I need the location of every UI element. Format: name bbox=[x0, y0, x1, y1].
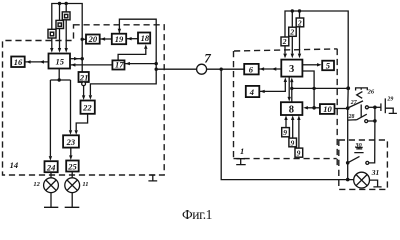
node bbox=[220, 68, 223, 71]
node bbox=[298, 9, 301, 12]
wire 3 to 6 bbox=[259, 68, 282, 70]
contact 28 arm bbox=[357, 114, 367, 120]
wire 4 to 3 bbox=[259, 82, 285, 92]
ground of lamp 12 bbox=[44, 193, 58, 208]
sensor box (top-left, upper) bbox=[62, 12, 70, 20]
sensor box (top-left, middle) bbox=[56, 20, 64, 28]
wire down to lamp line bbox=[221, 69, 353, 179]
node bbox=[346, 161, 350, 165]
sensor box 9 (middle) bbox=[289, 138, 297, 147]
svg-text:26: 26 bbox=[367, 88, 375, 95]
node bbox=[155, 68, 158, 71]
wire 3 to 8 bbox=[288, 77, 290, 98]
svg-text:9: 9 bbox=[297, 149, 301, 158]
svg-text:25: 25 bbox=[67, 162, 77, 172]
wire 8 to 3 bbox=[291, 82, 293, 102]
block 24 bbox=[45, 161, 58, 172]
node on top bus bbox=[65, 2, 68, 5]
wire 15 to bus node bbox=[70, 58, 82, 60]
wire node to block 10 bbox=[314, 107, 320, 109]
svg-text:8: 8 bbox=[289, 104, 294, 115]
node bbox=[58, 78, 61, 81]
block 4 bbox=[246, 86, 259, 97]
wire T to block 24 bbox=[49, 80, 51, 156]
node bbox=[290, 87, 293, 90]
node bbox=[155, 62, 158, 65]
svg-text:23: 23 bbox=[66, 137, 76, 147]
svg-text:6: 6 bbox=[249, 64, 254, 74]
wire 28 to vertical bbox=[368, 120, 375, 122]
ground of lamp 31 bbox=[370, 180, 382, 187]
wire sensor 2 to block 3 bbox=[299, 11, 301, 54]
sensor box 2 (lower-left) bbox=[281, 37, 289, 46]
block 6 bbox=[244, 64, 259, 75]
svg-text:7: 7 bbox=[204, 51, 211, 66]
dashed box 1 (right unit outline) bbox=[234, 49, 337, 51]
wire 17 up to 18 bbox=[118, 49, 146, 61]
contact 30 fixed contact bbox=[354, 147, 363, 152]
contact 30 arm bbox=[348, 156, 360, 162]
gang link 27-28 bbox=[360, 105, 362, 118]
sensor box 2 (upper) bbox=[296, 18, 304, 27]
sensor box 2 (middle) bbox=[289, 27, 297, 36]
contact 28 wire from bus bbox=[348, 119, 357, 121]
top-right bus bbox=[285, 11, 348, 88]
node bbox=[346, 178, 350, 182]
wire sensor to block 15 bbox=[51, 38, 53, 48]
wire node to right bus bbox=[292, 87, 348, 89]
svg-text:29: 29 bbox=[386, 96, 393, 102]
wire 21 terminal to 22 bbox=[83, 86, 85, 96]
contact 27 terminal bbox=[365, 106, 368, 109]
sensor box 9 (lower-right) bbox=[295, 148, 303, 157]
wire sensor to block 15 bbox=[59, 4, 61, 49]
node bbox=[346, 86, 350, 90]
wire node into 8 bbox=[308, 107, 315, 109]
wire T to block 23 bbox=[70, 80, 72, 130]
node bbox=[81, 57, 84, 60]
svg-text:2: 2 bbox=[289, 28, 294, 37]
battery 29 bbox=[381, 98, 397, 113]
block 19 bbox=[112, 34, 126, 45]
svg-text:15: 15 bbox=[56, 57, 65, 67]
block 5 bbox=[322, 61, 334, 70]
wire 3 to 5 bbox=[302, 64, 317, 66]
dashed box of lamp unit 30/31 bbox=[339, 140, 388, 189]
wire 3 right output down bbox=[302, 71, 314, 108]
svg-text:19: 19 bbox=[115, 34, 124, 44]
svg-text:10: 10 bbox=[323, 104, 332, 114]
svg-text:18: 18 bbox=[141, 33, 150, 43]
svg-text:2: 2 bbox=[282, 37, 287, 46]
block 8 bbox=[281, 102, 303, 115]
wire 15 to 16 bbox=[25, 61, 49, 63]
block 17 bbox=[112, 60, 124, 69]
block 18 bbox=[138, 33, 150, 44]
svg-text:31: 31 bbox=[371, 168, 380, 177]
svg-text:21: 21 bbox=[79, 72, 89, 82]
svg-text:20: 20 bbox=[88, 34, 98, 44]
wire 19 to 20 bbox=[100, 38, 112, 40]
wire node to block 20 bbox=[82, 38, 86, 40]
svg-text:9: 9 bbox=[291, 138, 295, 147]
node bbox=[312, 87, 315, 90]
svg-text:27: 27 bbox=[350, 100, 358, 106]
contact 26 arm bbox=[357, 92, 363, 99]
svg-text:17: 17 bbox=[115, 60, 124, 70]
svg-text:24: 24 bbox=[46, 162, 56, 172]
node bbox=[373, 106, 377, 110]
contact 27 arm bbox=[348, 101, 363, 108]
svg-text:1: 1 bbox=[240, 146, 244, 156]
node bbox=[346, 106, 350, 110]
wire sensor 9 to block 8 bbox=[292, 120, 294, 138]
wire 18 to 19 bbox=[126, 38, 138, 40]
node on top bus bbox=[58, 2, 61, 5]
svg-text:14: 14 bbox=[10, 160, 19, 170]
svg-text:28: 28 bbox=[348, 114, 355, 120]
svg-text:9: 9 bbox=[283, 128, 287, 137]
block 10 bbox=[320, 104, 335, 114]
right bus down to lamp line bbox=[347, 88, 350, 179]
wire node 7 to block 6 bbox=[207, 68, 245, 70]
terminal circle under 21 bbox=[82, 82, 86, 86]
block 15 bbox=[49, 54, 71, 69]
wire sensor 2 to block 3 bbox=[284, 46, 286, 54]
wire 10 to right bus bbox=[335, 108, 349, 110]
block 23 bbox=[63, 135, 79, 147]
ground of lamp 11 bbox=[65, 193, 80, 208]
lamp 11 bbox=[65, 178, 80, 193]
wire 22 to 23 bbox=[76, 114, 87, 131]
node bbox=[312, 106, 316, 110]
sensor box 9 (upper-left) bbox=[282, 128, 290, 137]
svg-text:16: 16 bbox=[14, 57, 23, 67]
distribution wire from 19 top to right bus bbox=[90, 19, 156, 95]
vertical wire 27/28 to contact 30 bbox=[369, 107, 375, 163]
lamp 12 bbox=[44, 178, 59, 193]
node bbox=[81, 38, 84, 41]
ground under box 1 bbox=[236, 159, 246, 165]
svg-text:2: 2 bbox=[297, 18, 302, 27]
wire 23 to 25 bbox=[70, 148, 72, 156]
svg-text:4: 4 bbox=[249, 87, 254, 97]
contact 26 (fixed bracket) bbox=[356, 88, 368, 91]
block 16 bbox=[11, 57, 25, 68]
wire sensor 9 to block 8 bbox=[298, 120, 300, 148]
block 22 bbox=[81, 101, 95, 114]
sensor box (top-left, lower) bbox=[48, 29, 56, 38]
top bus (left sensors supply wire) bbox=[52, 4, 82, 73]
svg-text:Фиг.1: Фиг.1 bbox=[182, 207, 212, 221]
node bbox=[373, 119, 377, 123]
svg-text:22: 22 bbox=[82, 103, 92, 113]
node bbox=[291, 9, 294, 12]
svg-text:11: 11 bbox=[82, 181, 88, 188]
block 3 bbox=[281, 60, 302, 77]
node 7 (connector circle) bbox=[197, 64, 207, 74]
svg-text:12: 12 bbox=[33, 181, 40, 188]
wire 25 to lamp 11 bbox=[71, 172, 73, 179]
wire to node 7 circle bbox=[156, 68, 196, 70]
contact 30 terminal bbox=[366, 161, 369, 164]
wire sensor to block 15 bbox=[65, 4, 67, 49]
wire 17 to 15 bbox=[70, 64, 112, 66]
lamp 31 bbox=[354, 172, 370, 188]
contact 28 terminal bbox=[365, 120, 368, 123]
block 21 bbox=[79, 72, 89, 82]
wire sensor 9 to block 8 bbox=[285, 120, 287, 128]
dashed box 14 (controller unit outline) bbox=[3, 25, 165, 175]
wire sensor 2 to block 3 bbox=[291, 11, 293, 54]
block 20 bbox=[86, 35, 100, 44]
ground under box 14 bbox=[148, 175, 157, 181]
wire 15 bottom T-split bbox=[50, 69, 70, 81]
block 25 bbox=[66, 161, 79, 172]
svg-text:5: 5 bbox=[326, 60, 331, 70]
svg-text:3: 3 bbox=[289, 64, 294, 75]
wire 24 to lamp 12 bbox=[50, 172, 52, 178]
wire bus to 17 bbox=[125, 63, 157, 65]
wire 27 to battery 29 bbox=[369, 106, 381, 108]
